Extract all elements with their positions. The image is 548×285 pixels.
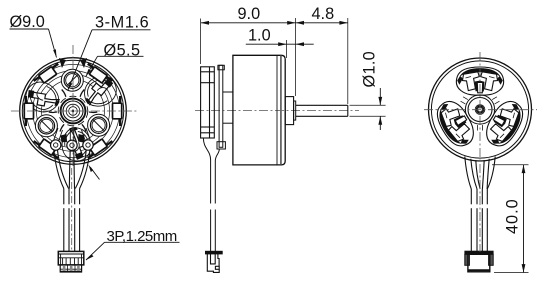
connector front view: [58, 251, 84, 272]
rim tab rectangles: [24, 63, 121, 160]
connector back view: [465, 251, 493, 272]
wires fan front view: [54, 150, 90, 189]
wire side view: [203, 138, 219, 251]
pcb strip: [217, 65, 225, 149]
motor can body: [233, 55, 285, 165]
svg-text:40.0: 40.0: [503, 198, 521, 234]
svg-text:9.0: 9.0: [238, 5, 261, 23]
dimension 40.0 extensions: [492, 165, 529, 273]
connector side view: [205, 251, 222, 272]
rotor teeth: [463, 72, 498, 93]
bearing boss step: [294, 101, 296, 120]
extension line can face (x=286.6): [286, 40, 288, 58]
wire bundle centerline front view: [71, 168, 73, 251]
coil dark masses above grommets: [61, 134, 85, 143]
svg-text:3P,1.25mm: 3P,1.25mm: [107, 228, 177, 245]
leader ⌀9.0: [10, 29, 57, 58]
wire grommet right: [83, 140, 93, 150]
screw boss top (M1.6): [61, 69, 83, 91]
hub arms to bosses: [49, 90, 98, 132]
svg-text:Ø5.5: Ø5.5: [104, 41, 141, 59]
dimension 1.0: [246, 42, 314, 46]
wire ribbon back view: [471, 189, 487, 253]
centerline horizontal back view: [424, 109, 537, 111]
svg-text:1.0: 1.0: [248, 27, 271, 45]
dark wedges near top rim: [59, 58, 87, 68]
wire grommet left: [51, 140, 61, 150]
screw boss bottom-right: [88, 114, 110, 136]
inner circle back view: [431, 61, 528, 158]
stator ring circles: [26, 64, 119, 157]
tooth detail lines: [466, 77, 495, 79]
leader 3P,1.25mm: [86, 242, 180, 260]
dimension ⌀1.0 extensions: [350, 105, 386, 116]
leader ⌀5.5: [86, 56, 144, 76]
rotor window group (3x rotational copies): [456, 67, 503, 95]
inner rim circle: [22, 60, 123, 161]
coil dark wedge: [85, 79, 113, 105]
wires fan back view: [465, 157, 495, 190]
dimension ⌀1.0 line and arrows: [378, 88, 382, 130]
spoke details back view: [461, 97, 500, 131]
svg-text:3-M1.6: 3-M1.6: [95, 14, 149, 32]
stator tabs: [223, 92, 233, 123]
grommet stems: [54, 128, 91, 142]
svg-text:4.8: 4.8: [312, 5, 335, 23]
mounting plate: [201, 67, 215, 138]
outer circle back view: [429, 58, 532, 161]
extension line boss face (x=295.6): [295, 18, 297, 96]
wire grommet center: [67, 140, 77, 150]
centerline horizontal front view: [11, 110, 138, 112]
hub / shaft concentric circles: [57, 95, 89, 127]
extension line left (x=200.6): [200, 19, 202, 65]
dimension 9.0: [201, 22, 296, 24]
svg-text:Ø1.0: Ø1.0: [361, 51, 379, 88]
bearing boss: [285, 97, 293, 125]
centerline horizontal side view: [195, 109, 359, 111]
screw boss bottom-left: [35, 115, 57, 137]
leader 3-M1.6: [68, 30, 151, 91]
extension line shaft tip (x=347.8): [347, 18, 349, 104]
shaft: [296, 105, 348, 116]
winding coil group (3x rotational copies): [85, 76, 117, 106]
centerline vertical back view: [479, 52, 481, 252]
svg-text:Ø9.0: Ø9.0: [10, 13, 45, 31]
stator tooth: [87, 82, 110, 105]
wire ribbon segment 1 front view: [64, 189, 80, 205]
wire ribbon segment 2 front view: [64, 208, 80, 251]
centerline vertical front view: [72, 45, 74, 168]
leader arrow at wire bundle: [90, 167, 99, 179]
window outline: [456, 67, 503, 95]
coil dark band: [460, 69, 500, 77]
dimension 40.0 line: [522, 165, 526, 273]
can rolled rim lines: [276, 55, 278, 165]
dimension 4.8: [296, 21, 348, 25]
hub back view: [465, 95, 494, 124]
outer circle (⌀9.0 body): [20, 58, 127, 165]
